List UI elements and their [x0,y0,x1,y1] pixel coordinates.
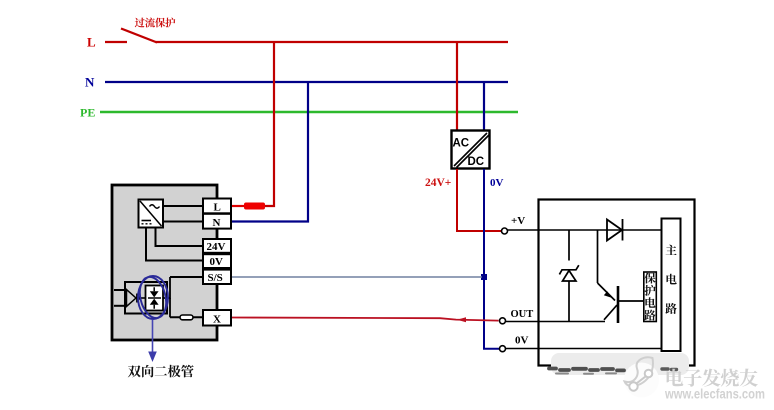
wire 24V+ red from AC/DC to +V node [457,169,501,231]
terminal 24V [203,239,231,253]
photo-diode / output device [127,290,137,307]
junction dot S/S tap on 0V wire [481,274,487,280]
svg-text:L: L [87,35,96,50]
wire stub lower left [114,305,126,307]
resistor R1 on X wire [180,315,193,320]
diode D1 on +V rail [607,219,623,241]
wire to X terminal [170,316,203,318]
svg-text:X: X [213,314,221,326]
terminal L [203,199,231,214]
terminal N [203,214,231,229]
wire 0V internal rail [506,348,662,350]
svg-text:N: N [213,217,221,229]
wire power module to 24V terminal [156,228,204,247]
wire power module to L terminal [163,205,203,207]
connector arrow on OUT wire [457,317,466,322]
svg-text:0V: 0V [490,177,504,189]
wire +V internal rail [508,229,662,231]
thick red fuse segment to L terminal [232,205,246,207]
zener diode VD1 branch [559,230,578,322]
wire down to X branch [169,298,171,317]
pointer arrow (blue) to label [152,320,154,353]
node 0V terminal [500,346,506,352]
power supply U2 AC/DC converter box [452,131,490,169]
wire red drop from L to sensor L terminal [264,42,274,206]
switch S1 (overcurrent protection breaker) on L [121,29,157,43]
svg-text:www.elecfans.com: www.elecfans.com [664,387,765,402]
svg-text:L: L [214,202,221,214]
transistor Q1 (PNP) [598,230,644,323]
label "过流保护" (overcurrent protection) [135,18,176,28]
optocoupler/output stage box inside sensor [125,282,167,314]
wire S/S to 0V vertical [232,276,483,278]
terminal X [203,310,231,326]
svg-text:24V: 24V [207,241,226,253]
watermark logo (elecfans leaf) [624,357,659,397]
svg-text:N: N [85,75,95,90]
node +V terminal [502,228,508,234]
svg-text:0V: 0V [515,335,529,347]
svg-text:OUT: OUT [511,309,534,320]
watermark scribble marks [549,369,677,374]
wire PE earth line [100,111,518,113]
svg-text:AC: AC [453,138,470,150]
label "双向二极管" (bidirectional diode) [128,365,194,378]
svg-text:S/S: S/S [208,272,223,284]
svg-text:DC: DC [468,156,485,168]
terminal S/S [203,270,231,284]
bidirectional TVS diode (双向二极管) [146,286,164,311]
terminal 0V [203,254,231,268]
wire power module to 0V terminal [146,228,203,261]
wire navy drop from N to AC/DC input [483,82,485,130]
svg-text:PE: PE [80,106,95,120]
wire TVS to right [163,277,170,298]
sensor box U4 (proximity switch) gray body [112,185,217,340]
power module U5 inside sensor [139,200,164,228]
wire red drop from L to AC/DC input [456,42,458,130]
wire OUT internal rail [506,321,606,323]
arrow emitter of Q1 [604,291,612,298]
wire navy drop from N to sensor N terminal [232,82,308,222]
watermark text 电子发烧友 [667,369,758,387]
wire 0V navy from AC/DC down to 0V node [484,169,499,349]
label "主电路" (main circuit) [665,245,676,314]
svg-text:0V: 0V [210,256,224,268]
label "保护电路" (protection circuit) [644,273,655,321]
node OUT terminal [500,318,506,324]
block 主电路 (main circuit) [662,219,681,352]
wire L phase line [105,41,508,43]
svg-text:24V+: 24V+ [425,177,451,189]
wire red OUT from X terminal [232,318,499,321]
load box U3 (controlled device) [539,200,695,366]
wire stub upper left [114,289,126,291]
wire N neutral line [105,81,508,83]
svg-text:+V: +V [511,215,525,227]
highlight ellipse (blue) around TVS [136,274,170,321]
wire to TVS [138,297,146,299]
block 保护电路 (protection circuit) [644,272,657,322]
wire S/S branch [170,276,203,278]
wire power module to N terminal [163,221,203,223]
watermark smudge blob [551,353,689,375]
